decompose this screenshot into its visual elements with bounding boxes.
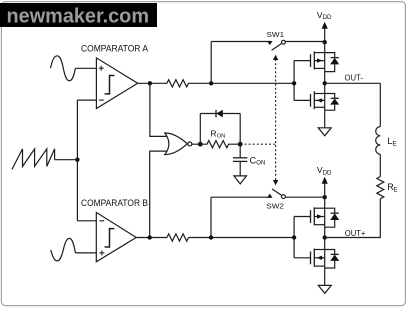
wire diode box left: [199, 114, 201, 145]
svg-text:OUT-: OUT-: [345, 72, 364, 82]
wire sawtooth bus vertical: [76, 100, 78, 221]
arrowhead control up (at SW1): [273, 55, 278, 60]
svg-text:COMPARATOR B: COMPARATOR B: [81, 198, 148, 209]
wire diode box top: [200, 113, 240, 115]
node OUT+ mid point: [323, 235, 327, 239]
supply VDD top: [317, 10, 332, 42]
wire comparator A output: [138, 82, 167, 84]
svg-text:COMPARATOR A: COMPARATOR A: [81, 44, 149, 55]
label RON: [210, 129, 225, 140]
wire NOR output: [191, 143, 200, 145]
hysteresis glyph comparator A: [105, 76, 115, 94]
transistor Q3 (top FET, bridge 2): [294, 207, 325, 225]
comparator U2 (B) triangle: [96, 212, 136, 261]
switch SW2: [211, 189, 325, 199]
resistor R2 (comparator B output): [167, 234, 189, 241]
svg-text:ON: ON: [217, 134, 226, 140]
inductor LE: [376, 127, 381, 155]
NOR output bubble: [188, 142, 192, 146]
wire RC node to capacitor: [239, 144, 241, 158]
svg-text:ON: ON: [256, 161, 265, 167]
wire half-bridge 1 main vertical: [324, 42, 326, 128]
sine wave source B: [51, 238, 76, 261]
wire capacitor to ground: [239, 161, 241, 176]
wire resistor R1 to gate bus: [189, 82, 295, 84]
ground bridge 2: [318, 285, 331, 293]
diode D1 (across RON, pointing left): [216, 110, 223, 118]
wire half-bridge 2 main vertical: [324, 197, 326, 285]
node comparator B output: [148, 235, 152, 239]
sine wave source A: [51, 56, 76, 81]
svg-text:OUT+: OUT+: [345, 228, 366, 238]
body diode Q4: [325, 250, 340, 269]
wire gate bus bridge 2: [293, 217, 295, 258]
ground bridge 1: [318, 128, 331, 136]
dashed control line horizontal from RC node: [245, 143, 276, 145]
wire OUT-: [325, 82, 381, 84]
switch SW1: [211, 40, 325, 50]
wire sineA to comparator A + input: [75, 67, 96, 69]
plus sign comparator A: [99, 66, 104, 71]
svg-text:SW1: SW1: [267, 30, 285, 39]
minus sign comparator A: [99, 99, 104, 101]
node VDD top junction: [323, 40, 327, 44]
svg-text:E: E: [393, 186, 398, 193]
ground CON: [234, 176, 247, 184]
wire SW1 drop: [210, 42, 212, 84]
transistor Q2 (bottom FET, bridge 1): [294, 91, 325, 109]
body diode Q3: [325, 208, 340, 227]
node gate bus bridge 1: [292, 81, 296, 85]
svg-text:DD: DD: [323, 169, 332, 176]
sawtooth source: [12, 149, 55, 170]
wire bus to comparator A - input: [77, 99, 96, 101]
node sawtooth junction: [75, 158, 79, 162]
label LE: [387, 136, 397, 147]
wire SW2 drop: [210, 197, 212, 237]
node gate bus bridge 2: [292, 235, 296, 239]
resistor R1 (comparator A output): [167, 80, 189, 87]
wire comparator B out to NOR bottom input: [150, 151, 169, 237]
wire comparator B output: [136, 237, 167, 239]
node OUT- mid point: [323, 81, 327, 85]
body diode Q1: [325, 53, 340, 72]
NOR gate U3: [165, 133, 188, 155]
body diode Q2: [325, 94, 340, 111]
node NOR output: [198, 142, 203, 147]
svg-text:DD: DD: [323, 14, 332, 21]
capacitor CON: [233, 158, 247, 162]
wire between LE and RE: [379, 154, 381, 176]
svg-text:E: E: [392, 141, 397, 148]
node SW1 branch: [209, 81, 213, 85]
transistor Q4 (bottom FET, bridge 2): [294, 249, 325, 267]
wire diode box right: [239, 114, 241, 145]
node RC junction: [238, 142, 243, 147]
wire comparator A out to NOR top input: [150, 83, 169, 136]
wire gate bus bridge 1: [293, 61, 295, 101]
hysteresis glyph comparator B: [105, 229, 115, 247]
wire right rail bottom: [325, 199, 381, 238]
dashed control line vertical SW1-SW2: [275, 59, 277, 181]
wire bus to comparator B - input: [77, 220, 96, 222]
resistor RON: [200, 141, 240, 148]
svg-text:newmaker.com: newmaker.com: [7, 5, 150, 27]
plus sign comparator B: [99, 250, 104, 255]
node VDD bottom junction: [323, 195, 327, 199]
wire resistor R2 to gate bus: [189, 237, 295, 239]
minus sign comparator B: [99, 220, 104, 222]
label CON: [250, 155, 266, 166]
supply VDD bottom: [317, 165, 332, 197]
svg-text:SW2: SW2: [266, 202, 284, 211]
label RE: [387, 182, 398, 193]
wire sineB to comparator B + input: [75, 252, 96, 254]
wire sawtooth to node: [55, 159, 78, 161]
node SW2 branch: [209, 235, 213, 239]
transistor Q1 (top FET, bridge 1): [294, 51, 325, 69]
arrowhead control down (at SW2): [273, 180, 278, 185]
comparator U1 (A) triangle: [96, 58, 137, 109]
resistor RE: [377, 177, 384, 199]
newmaker.com watermark logo: [0, 3, 157, 27]
wire right rail top: [379, 83, 381, 126]
node comparator A output: [148, 81, 152, 85]
